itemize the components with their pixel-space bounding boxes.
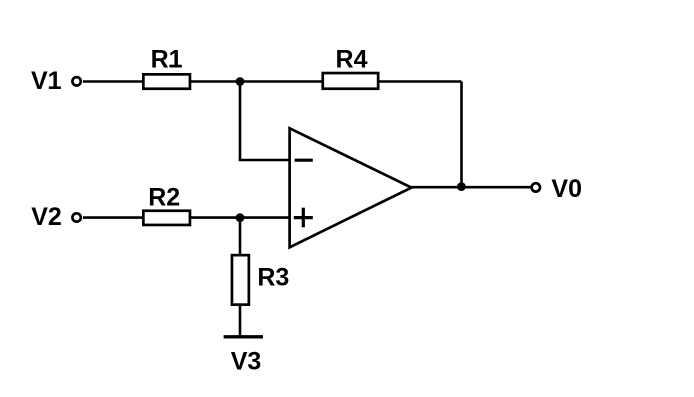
- wire top horizontal V1 to feedback corner: [83, 80, 462, 83]
- wire right vertical feedback drop: [460, 82, 463, 188]
- junction node at R2/R3: [236, 213, 245, 222]
- wire output horizontal: [412, 186, 532, 189]
- svg-text:V3: V3: [231, 348, 262, 376]
- svg-text:R2: R2: [148, 183, 180, 211]
- svg-text:V0: V0: [551, 175, 582, 203]
- op-amp U1 triangle: [290, 128, 412, 247]
- wire R3 vertical: [239, 218, 242, 336]
- op-amp minus sign: [295, 159, 313, 162]
- terminal V2: [72, 213, 80, 221]
- junction node at output: [457, 182, 466, 191]
- resistor R4: [323, 73, 378, 89]
- wire inverting input horizontal: [239, 159, 290, 162]
- wire inverting input vertical drop: [239, 82, 242, 161]
- junction node at R1/R4: [236, 77, 245, 86]
- svg-text:R3: R3: [257, 264, 289, 292]
- wire lower horizontal V2 to op-amp: [83, 216, 290, 219]
- ground bar V3: [224, 335, 263, 338]
- resistor R1: [143, 74, 190, 88]
- terminal V1: [72, 77, 80, 85]
- svg-text:R4: R4: [336, 46, 368, 74]
- svg-text:R1: R1: [151, 45, 183, 73]
- svg-text:V1: V1: [31, 67, 62, 95]
- svg-text:V2: V2: [31, 203, 62, 231]
- resistor R3: [232, 255, 249, 305]
- op-amp plus sign: [294, 216, 313, 219]
- resistor R2: [143, 211, 190, 225]
- terminal V0: [532, 183, 540, 191]
